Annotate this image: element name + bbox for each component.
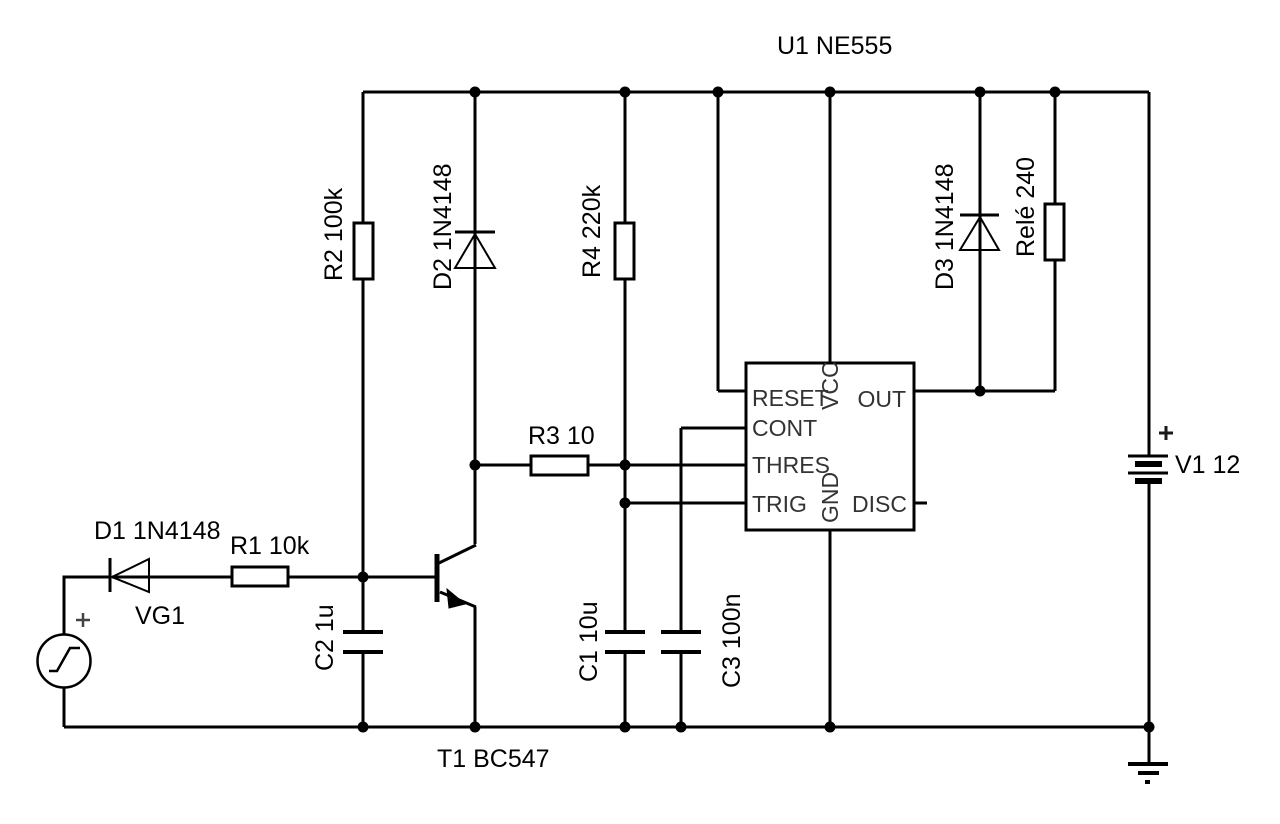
diode D3 [960,215,999,250]
wire C1 bottom to rail [624,652,627,727]
svg-text:D2 1N4148: D2 1N4148 [429,164,457,290]
wire battery top [1148,92,1151,456]
wire VG1 top lead [64,577,110,635]
wire collector vertical [474,465,477,544]
resistor R3 [531,456,588,475]
resistor R1 [232,567,288,586]
svg-text:OUT: OUT [857,386,906,412]
plus sign battery [1159,426,1173,440]
wire emitter vertical [474,607,477,727]
wire GND vertical [829,530,832,727]
wire TRIG horizontal [625,502,746,505]
svg-text:C3 100n: C3 100n [718,593,746,688]
diode D2 [455,232,495,268]
wire CONT horizontal [681,427,746,430]
wire top rail [363,91,1149,94]
wire RESET vertical [717,92,720,391]
node bottom rail / C3 [676,722,687,733]
svg-text:R3 10: R3 10 [528,422,595,450]
svg-text:R4 220k: R4 220k [578,184,606,278]
wire RESET horizontal [718,390,746,393]
node top rail / VCC [825,87,836,98]
wire R2 column lower to C2 [362,279,365,632]
svg-text:CONT: CONT [752,415,817,441]
wire THRES horizontal [588,464,746,467]
svg-text:TRIG: TRIG [752,491,807,517]
transistor Q1 T1 BC547 [437,545,476,607]
svg-text:D3 1N4148: D3 1N4148 [931,164,959,290]
battery V1 [1128,456,1168,481]
relay coil Rele 240 [1045,204,1064,260]
wire bottom rail [64,726,1149,729]
wire C2 bottom to rail [362,652,365,727]
node THRES / R4 [620,460,631,471]
svg-text:T1 BC547: T1 BC547 [437,745,550,773]
svg-text:VG1: VG1 [135,602,185,630]
svg-text:D1 1N4148: D1 1N4148 [94,517,220,545]
svg-text:C2 1u: C2 1u [311,604,339,671]
resistor R4 [615,223,634,279]
diode D1 [110,558,149,592]
node top rail / R4 [620,87,631,98]
node bottom rail / emitter [470,722,481,733]
node base / C2 [358,572,369,583]
wire R2 column upper [362,92,365,223]
ground [1128,764,1168,782]
wire battery bottom to rail [1148,483,1151,727]
wire DISC stub [914,502,927,505]
IC U1 NE555 box [746,363,914,530]
node bottom rail / C2 [358,722,369,733]
wire R3 left [475,464,531,467]
node bottom rail / ground [1144,722,1155,733]
plus sign VG1 [76,613,90,627]
wire CONT vertical to C3 [680,428,683,632]
node TRIG / R4 [620,498,631,509]
wire C3 bottom to rail [680,652,683,727]
node collector / R3 [470,460,481,471]
wire D3 column [979,92,982,391]
wire R4 column lower to C1 [624,279,627,632]
wire D2 column [474,92,477,465]
capacitor C2 [343,632,383,652]
wire relay column upper [1054,92,1057,204]
node bottom rail / GND [825,722,836,733]
svg-text:GND: GND [817,472,843,523]
node top rail / D3 [975,87,986,98]
svg-text:U1 NE555: U1 NE555 [777,32,892,60]
wire VG1 bottom lead [63,688,66,727]
wire R4 column upper [624,92,627,223]
svg-text:R2 100k: R2 100k [320,187,348,281]
capacitor C1 [605,632,645,652]
svg-text:DISC: DISC [852,491,907,517]
wire ground lead [1148,727,1151,764]
source VG1 [38,635,91,688]
resistor R2 [354,223,373,279]
node top rail / RESET [713,87,724,98]
svg-text:R1 10k: R1 10k [230,532,310,560]
svg-text:V1 12: V1 12 [1175,451,1240,479]
svg-text:C1 10u: C1 10u [575,601,603,682]
svg-text:Relé 240: Relé 240 [1012,157,1040,257]
node OUT / D3 [975,386,986,397]
wire VCC vertical [829,92,832,363]
node bottom rail / C1 [620,722,631,733]
wire OUT horizontal [914,390,1055,393]
wire D1 to R1 [112,576,232,579]
wire relay lower [1054,260,1057,391]
node top rail / relay [1050,87,1061,98]
node top rail / D2 [470,87,481,98]
capacitor C3 [661,632,701,652]
wire R1 to base [288,576,436,579]
svg-text:VCC: VCC [817,361,843,410]
